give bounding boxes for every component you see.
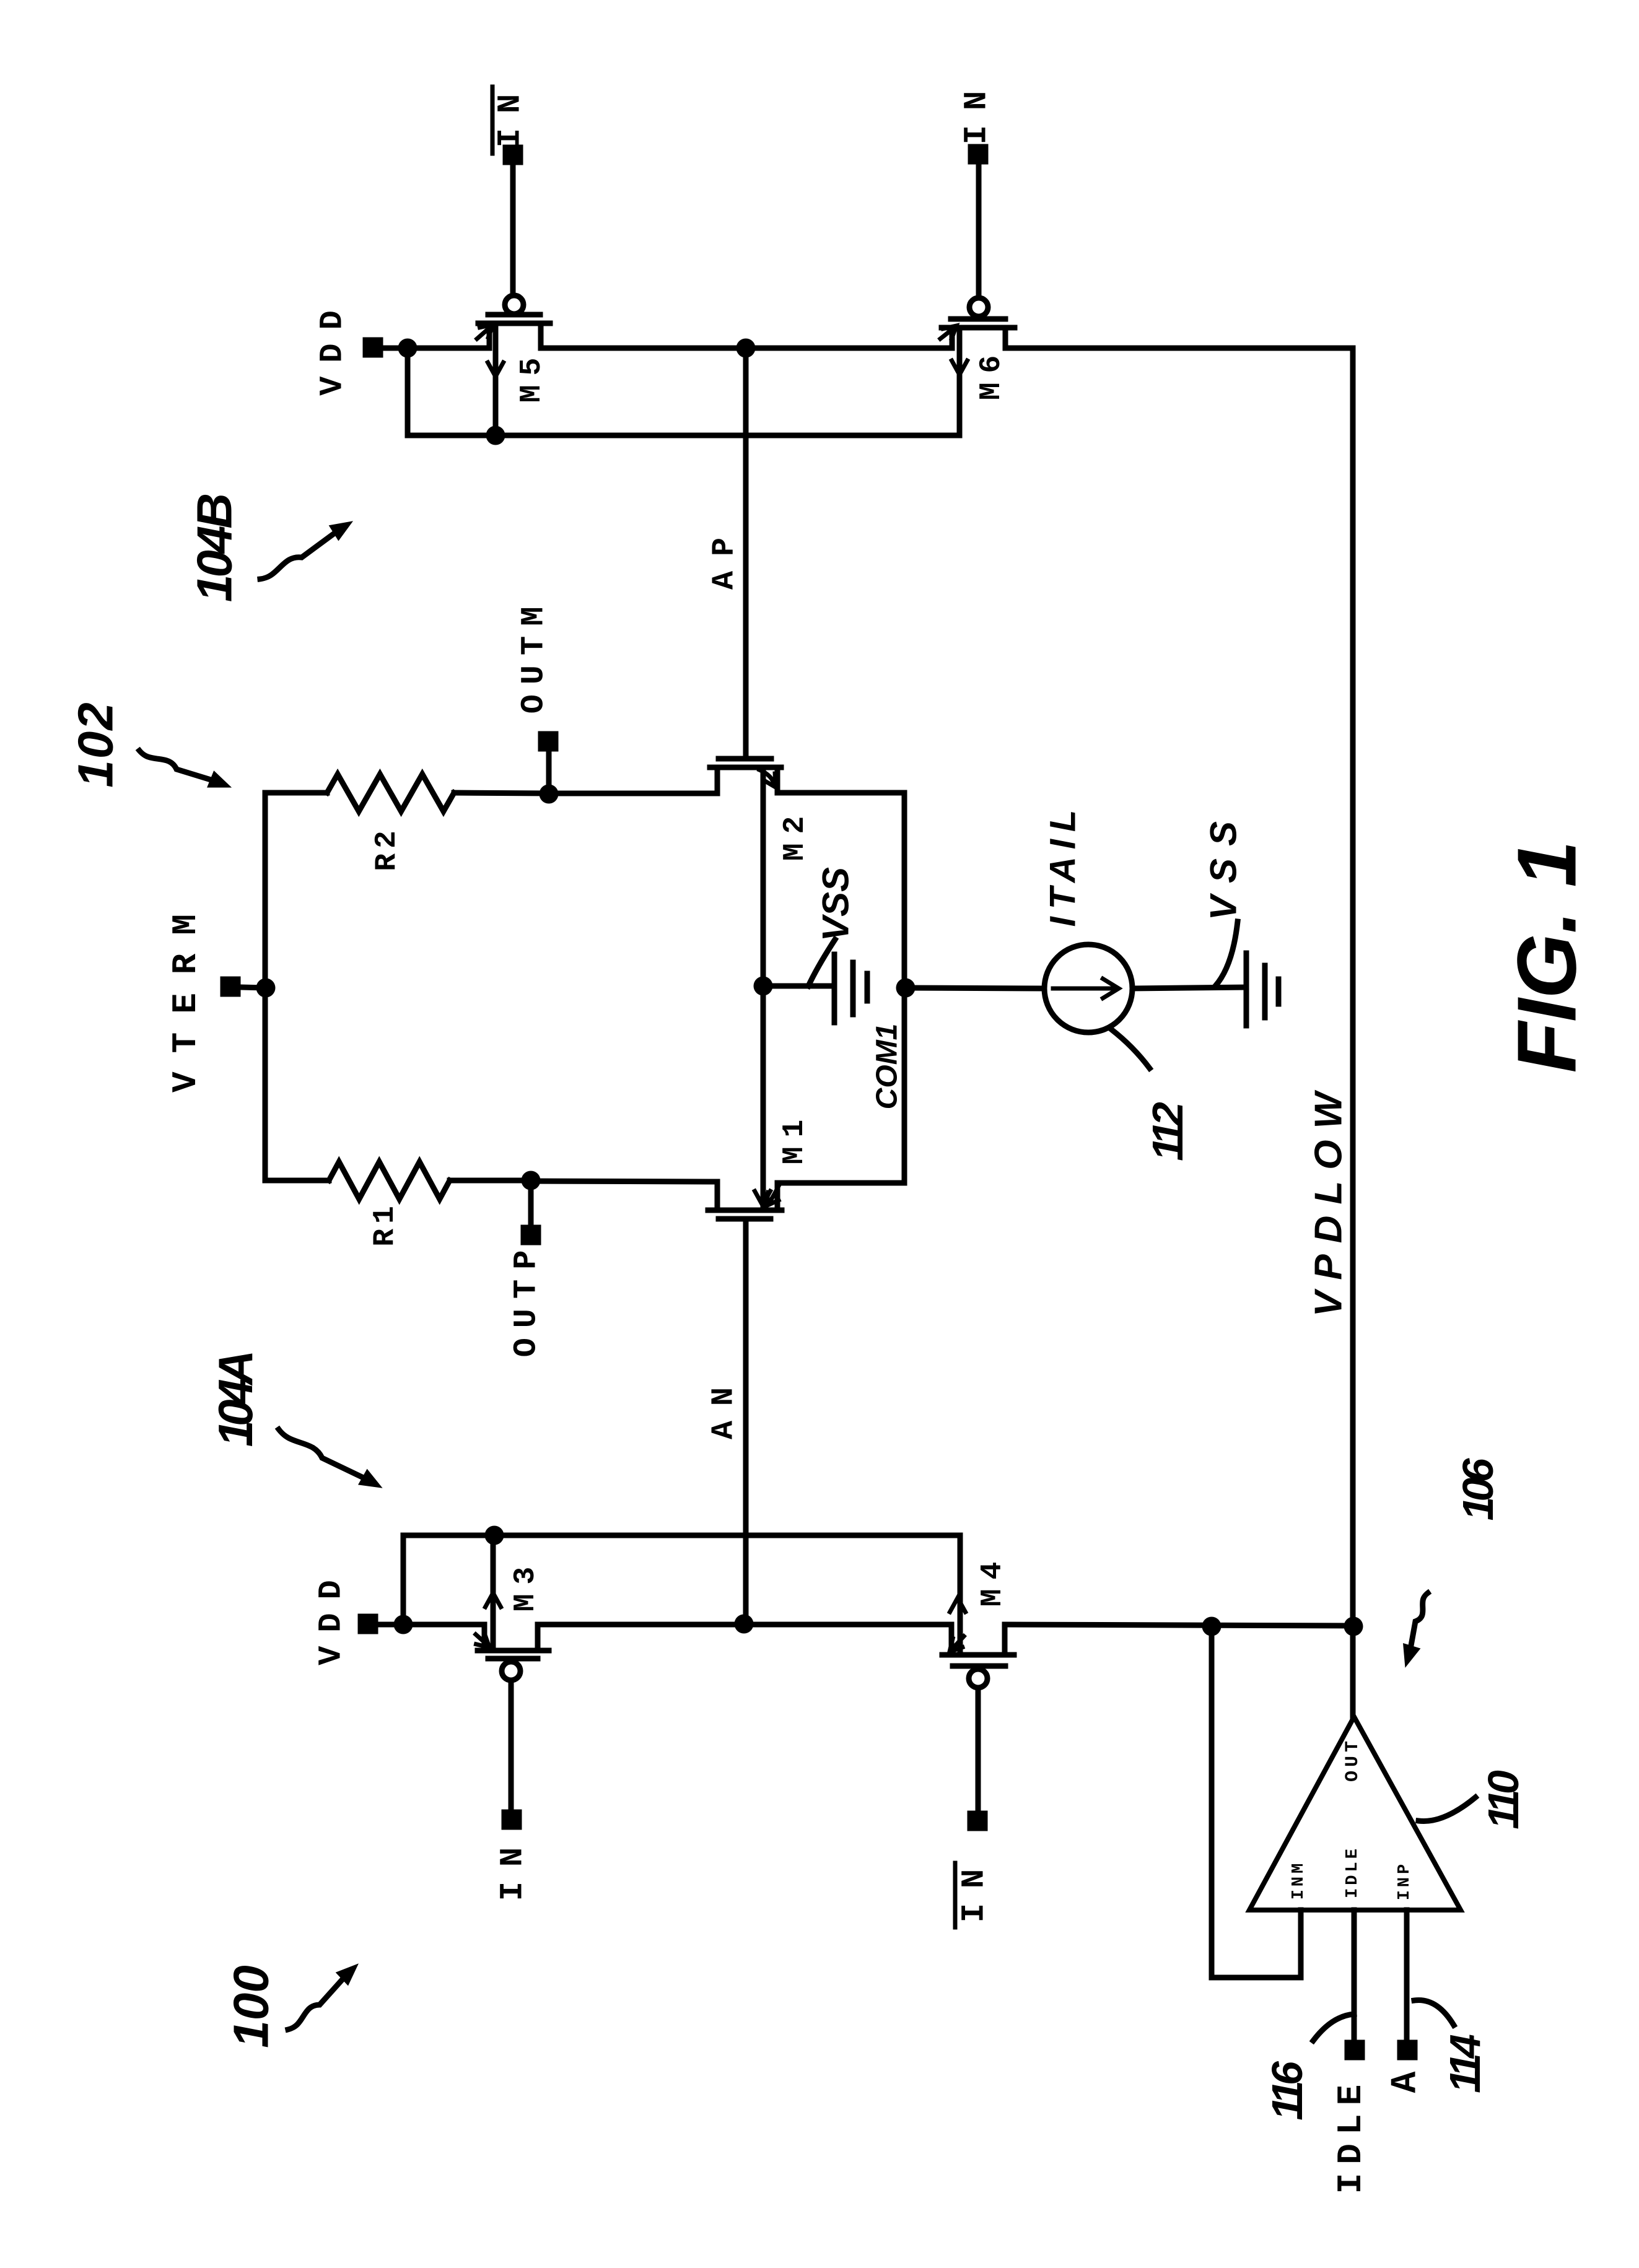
svg-text:IDLE: IDLE xyxy=(1344,1846,1362,1898)
svg-text:IN: IN xyxy=(492,79,529,147)
svg-text:M5: M5 xyxy=(515,349,549,403)
svg-text:M1: M1 xyxy=(778,1110,811,1165)
svg-text:VDD: VDD xyxy=(313,1566,350,1665)
svg-text:OUTM: OUTM xyxy=(516,597,553,714)
svg-text:110: 110 xyxy=(1479,1770,1528,1830)
svg-text:M6: M6 xyxy=(975,346,1008,401)
svg-text:OUTP: OUTP xyxy=(509,1241,545,1358)
svg-text:R2: R2 xyxy=(370,826,404,871)
svg-text:M3: M3 xyxy=(509,1558,543,1612)
svg-text:112: 112 xyxy=(1143,1102,1192,1161)
svg-text:IN: IN xyxy=(495,1833,531,1901)
svg-text:INM: INM xyxy=(1290,1860,1308,1900)
svg-text:IDLE: IDLE xyxy=(1331,2076,1371,2194)
svg-text:114: 114 xyxy=(1441,2035,1489,2093)
svg-text:M2: M2 xyxy=(779,807,812,861)
svg-text:OUT: OUT xyxy=(1342,1737,1363,1782)
svg-text:104A: 104A xyxy=(208,1353,263,1447)
svg-text:COM1: COM1 xyxy=(871,1024,904,1110)
svg-text:VPDLOW: VPDLOW xyxy=(1308,1081,1350,1317)
svg-text:INP: INP xyxy=(1396,1861,1414,1901)
svg-text:116: 116 xyxy=(1263,2061,1311,2121)
svg-text:FIG. 1: FIG. 1 xyxy=(1500,840,1594,1073)
svg-text:VDD: VDD xyxy=(315,297,351,396)
svg-text:A: A xyxy=(1386,2071,1427,2093)
svg-text:M4: M4 xyxy=(976,1553,1010,1607)
svg-text:R1: R1 xyxy=(369,1201,402,1247)
svg-text:ITAIL: ITAIL xyxy=(1043,803,1083,927)
svg-text:IN: IN xyxy=(959,76,995,144)
svg-text:104B: 104B xyxy=(187,495,242,602)
svg-text:100: 100 xyxy=(224,1965,279,2048)
svg-text:VSS: VSS xyxy=(815,867,857,941)
svg-text:VTERM: VTERM xyxy=(166,896,206,1093)
svg-text:102: 102 xyxy=(68,701,123,787)
svg-text:AP: AP xyxy=(707,523,743,590)
svg-text:106: 106 xyxy=(1454,1458,1502,1521)
svg-text:VSS: VSS xyxy=(1203,809,1244,920)
svg-text:AN: AN xyxy=(707,1372,742,1439)
svg-text:IN: IN xyxy=(956,1854,993,1922)
